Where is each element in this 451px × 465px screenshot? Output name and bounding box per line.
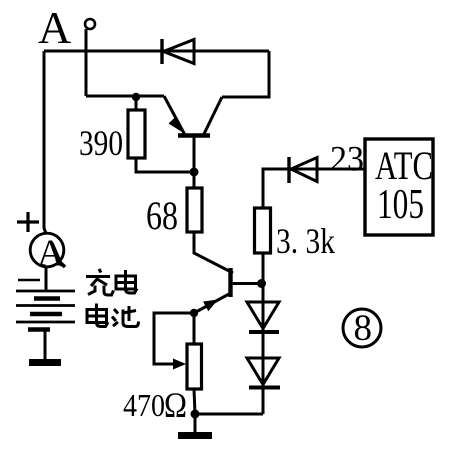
- resistor R1 390: [128, 97, 194, 172]
- svg-text:23: 23: [330, 139, 364, 179]
- wire: ammeter to battery: [45, 267, 48, 291]
- wire: terminal A stem down through top rail: [85, 29, 88, 96]
- figure number 8: [343, 308, 381, 349]
- transistor Q1: [164, 96, 222, 188]
- plus terminal label: [17, 212, 39, 232]
- diode D3: [247, 302, 279, 332]
- ground (battery): [29, 330, 61, 363]
- junction node Q2 base / D3 top: [257, 279, 266, 288]
- node A: [85, 19, 95, 29]
- battery label dian2: [87, 304, 108, 327]
- wire: emitter feed horizontal: [86, 95, 164, 98]
- battery label chi: [112, 306, 139, 327]
- wire: D4 to ground rail: [195, 413, 263, 416]
- svg-text:A: A: [38, 2, 71, 53]
- wire: collector riser right: [222, 51, 269, 97]
- junction node Q2 emitter: [190, 309, 198, 317]
- svg-text:68: 68: [146, 193, 178, 238]
- junction node Q1 base: [190, 168, 199, 177]
- svg-text:3. 3k: 3. 3k: [276, 221, 335, 261]
- wire: D2 anode down to R4: [263, 169, 365, 208]
- ammeter M1: [30, 233, 65, 275]
- svg-text:390: 390: [79, 123, 123, 163]
- diode D2: [289, 157, 317, 183]
- wire: left rail: [44, 51, 46, 234]
- battery label chong: [86, 269, 114, 295]
- svg-text:105: 105: [377, 182, 424, 228]
- resistor R4 3.3k: [255, 208, 271, 414]
- svg-text:A: A: [37, 233, 65, 275]
- diode D1: [162, 39, 194, 64]
- rheostat R3 470: [154, 313, 202, 414]
- junction node ground: [191, 410, 200, 419]
- battery B1: [16, 280, 75, 330]
- battery label dian1: [116, 270, 137, 293]
- transistor Q2: [194, 268, 261, 313]
- diode D4: [247, 358, 280, 388]
- svg-text:470: 470: [123, 387, 165, 423]
- wire: top rail: [44, 50, 269, 53]
- resistor R2 68: [187, 188, 202, 232]
- module U1 ATC105: [365, 139, 433, 235]
- svg-text:Ω: Ω: [164, 385, 187, 425]
- svg-text:8: 8: [354, 308, 373, 349]
- wire: R2 to Q2 collector: [194, 232, 233, 273]
- ground (main): [178, 414, 212, 436]
- junction node R1 top: [132, 93, 140, 101]
